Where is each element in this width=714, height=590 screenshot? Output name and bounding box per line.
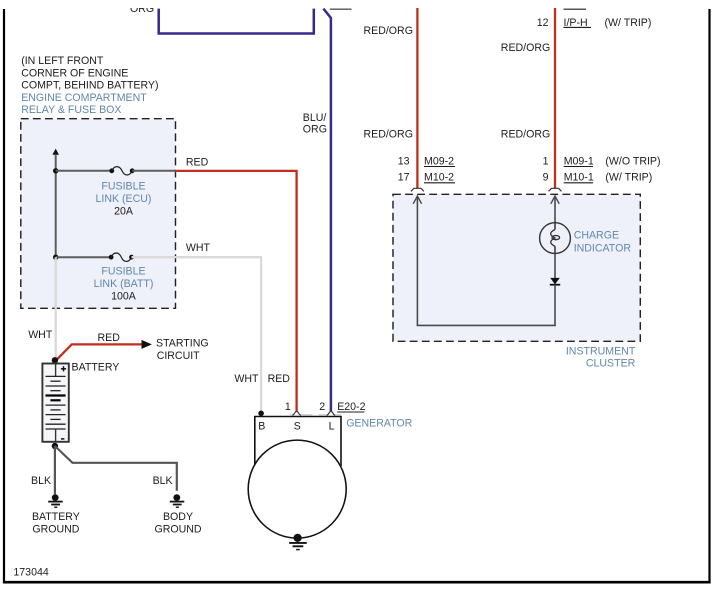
cluster bottom wire: [417, 324, 556, 326]
wire WHT bus to battery: [55, 257, 57, 360]
svg-text:BATTERY: BATTERY: [72, 361, 120, 373]
wire BLK to battery ground: [54, 446, 56, 494]
svg-text:FUSIBLE: FUSIBLE: [101, 181, 145, 193]
generator ground symbol: [289, 542, 307, 544]
svg-text:RED: RED: [98, 332, 121, 344]
wire WHT to generator B: [132, 257, 262, 411]
svg-text:1: 1: [285, 401, 291, 413]
page border bottom: [3, 581, 711, 584]
svg-text:1: 1: [543, 155, 549, 167]
connector bump L: [327, 411, 336, 415]
svg-text:(IN LEFT FRONT: (IN LEFT FRONT: [21, 55, 104, 67]
svg-text:173044: 173044: [13, 567, 48, 579]
svg-text:RED/ORG: RED/ORG: [501, 42, 550, 54]
wire RED starting circuit: [57, 344, 142, 359]
relay & fuse box: [21, 119, 176, 309]
label ORG (cut off at top): [130, 3, 154, 15]
svg-text:GROUND: GROUND: [32, 523, 79, 535]
svg-text:RED: RED: [268, 373, 291, 385]
svg-text:M10-1: M10-1: [564, 172, 594, 184]
connector bump S: [292, 411, 301, 415]
cluster wire left with arrow: [413, 196, 421, 204]
page border left: [3, 9, 5, 583]
wire BLK to body ground: [55, 446, 177, 491]
cluster wire right with arrow: [551, 196, 559, 204]
svg-text:RED/ORG: RED/ORG: [364, 128, 413, 140]
svg-text:(W/O TRIP): (W/O TRIP): [605, 155, 660, 167]
generator ground dot: [294, 534, 302, 542]
wire diode to bottom: [554, 285, 556, 326]
page border right: [708, 9, 710, 583]
svg-text:CIRCUIT: CIRCUIT: [157, 350, 200, 362]
svg-text:2: 2: [319, 401, 325, 413]
svg-text:INDICATOR: INDICATOR: [574, 242, 632, 254]
battery terminal top dot: [52, 357, 58, 363]
wire stub at top: [330, 8, 352, 10]
battery plus: [61, 368, 66, 370]
arrow starting circuit: [142, 340, 152, 349]
bus arrow up: [52, 149, 59, 155]
svg-text:BLK: BLK: [153, 475, 173, 487]
connector bump right (cluster): [549, 188, 562, 191]
svg-text:RELAY & FUSE BOX: RELAY & FUSE BOX: [21, 104, 121, 116]
svg-text:GENERATOR: GENERATOR: [346, 417, 412, 429]
svg-text:(W/ TRIP): (W/ TRIP): [605, 17, 652, 29]
diode arrow down: [550, 278, 560, 285]
svg-text:RED/ORG: RED/ORG: [501, 128, 550, 140]
fusible link (BATT): [56, 256, 111, 258]
svg-text:WHT: WHT: [186, 242, 211, 254]
svg-text:20A: 20A: [114, 205, 134, 217]
wire BLU/ORG to generator L: [323, 9, 331, 412]
svg-text:9: 9: [543, 172, 549, 184]
svg-text:CORNER OF ENGINE: CORNER OF ENGINE: [21, 67, 128, 79]
svg-text:17: 17: [398, 172, 410, 184]
svg-text:LINK (BATT): LINK (BATT): [94, 278, 154, 290]
svg-text:ORG: ORG: [303, 123, 327, 135]
svg-text:L: L: [329, 420, 335, 432]
svg-text:INSTRUMENT: INSTRUMENT: [566, 345, 636, 357]
svg-text:CHARGE: CHARGE: [574, 230, 619, 242]
svg-text:M09-1: M09-1: [564, 155, 594, 167]
svg-text:(W/ TRIP): (W/ TRIP): [605, 172, 652, 184]
svg-text:ORG: ORG: [130, 3, 154, 15]
svg-text:B: B: [258, 420, 265, 432]
svg-text:100A: 100A: [111, 291, 137, 303]
connector bump left (cluster): [411, 188, 424, 191]
svg-text:CLUSTER: CLUSTER: [586, 358, 636, 370]
svg-text:FUSIBLE: FUSIBLE: [101, 266, 145, 278]
charge indicator lamp: [540, 223, 571, 254]
svg-text:S: S: [294, 420, 301, 432]
wire BLU/ORG top loop: [159, 9, 314, 34]
svg-text:WHT: WHT: [28, 329, 53, 341]
generator box: [255, 417, 341, 467]
svg-text:BATTERY: BATTERY: [32, 511, 80, 523]
svg-text:RED/ORG: RED/ORG: [364, 25, 413, 37]
svg-text:M10-2: M10-2: [424, 172, 454, 184]
wire RED to generator S: [176, 171, 296, 412]
svg-text:12: 12: [537, 17, 549, 29]
instrument cluster box: [393, 194, 640, 341]
wire RED/ORG left riser: [416, 8, 418, 188]
junction dot 2: [53, 255, 58, 260]
svg-text:E20-2: E20-2: [337, 401, 365, 413]
svg-text:RED: RED: [186, 156, 209, 168]
svg-text:COMPT, BEHIND BATTERY): COMPT, BEHIND BATTERY): [21, 80, 158, 92]
generator circle: [248, 440, 346, 538]
battery body: [42, 364, 68, 442]
terminal B dot: [258, 411, 264, 417]
wire below lamp: [554, 254, 556, 279]
fusible link (ECU): [56, 170, 112, 172]
svg-text:M09-2: M09-2: [424, 155, 454, 167]
bus wire vertical: [55, 154, 57, 257]
battery terminal bottom dot: [52, 443, 58, 449]
svg-text:BODY: BODY: [163, 511, 193, 523]
svg-text:GROUND: GROUND: [154, 523, 201, 535]
svg-text:BLU/: BLU/: [303, 112, 327, 124]
svg-text:13: 13: [398, 155, 410, 167]
svg-text:LINK (ECU): LINK (ECU): [96, 193, 152, 205]
svg-text:BLK: BLK: [31, 475, 51, 487]
junction dot 1: [53, 168, 58, 173]
battery ground symbol: [52, 494, 59, 501]
svg-text:ENGINE COMPARTMENT: ENGINE COMPARTMENT: [21, 92, 147, 104]
battery internals: [55, 364, 57, 377]
wire RED/ORG right riser: [554, 8, 556, 188]
body ground symbol: [173, 494, 180, 501]
svg-text:WHT: WHT: [234, 373, 259, 385]
battery minus: [61, 438, 64, 440]
svg-text:STARTING: STARTING: [156, 338, 209, 350]
